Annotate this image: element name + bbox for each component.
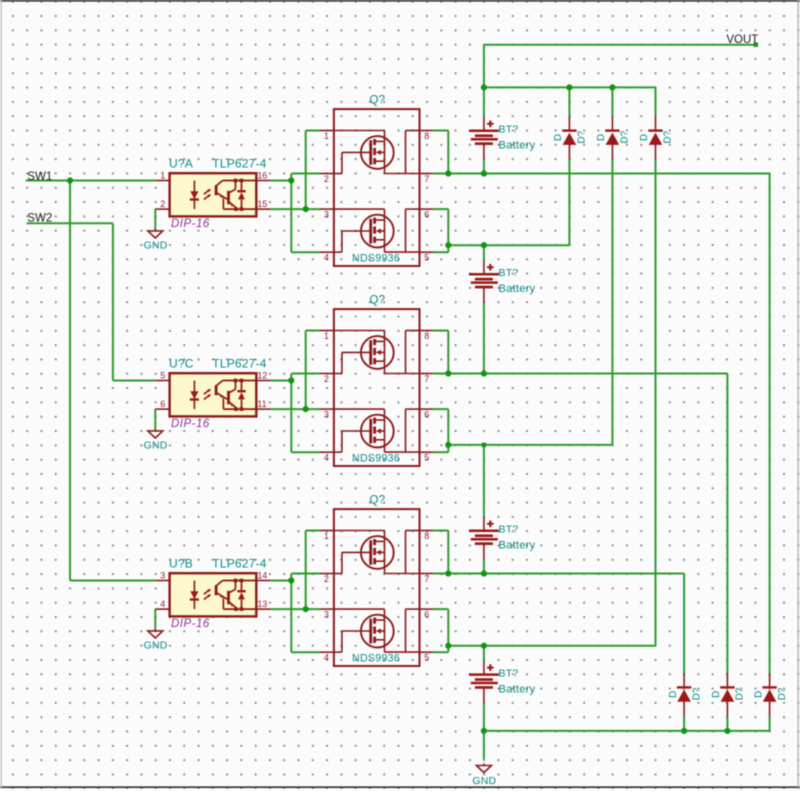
wire to Q gate pin4	[291, 651, 320, 653]
svg-text:SW1: SW1	[27, 171, 52, 183]
wire jog vertical	[290, 174, 292, 253]
svg-text:D?: D?	[777, 687, 788, 700]
diode D? (B3)	[762, 673, 776, 716]
battery BT? (BT4)	[469, 660, 499, 703]
svg-text:DIP-16: DIP-16	[171, 618, 210, 630]
wire to Q gate pin2	[291, 373, 320, 375]
wire U?C emitter out	[271, 408, 320, 410]
wire Q pin8	[433, 130, 448, 132]
svg-text:13: 13	[257, 599, 267, 609]
wire SW2 vertical	[112, 223, 114, 380]
wire to bottom GND	[483, 731, 485, 760]
wire pin6-pin5 tie	[447, 209, 449, 252]
svg-text:NDS9936: NDS9936	[352, 652, 400, 664]
wire top rail R1	[484, 86, 656, 88]
svg-text:Q?: Q?	[370, 95, 386, 107]
wire pin8-pin7 tie	[447, 131, 449, 174]
svg-text:11: 11	[257, 399, 266, 409]
wire Q pin6	[433, 208, 448, 210]
optocoupler U?B TLP627-4	[155, 570, 270, 616]
wire Q pin5 jog	[433, 651, 448, 653]
svg-text:Battery: Battery	[499, 540, 536, 552]
junction	[481, 170, 487, 176]
wire to Q pin1	[306, 330, 320, 332]
junction	[288, 577, 294, 583]
wire diode A2 top	[611, 87, 613, 116]
wire rail R3	[448, 444, 612, 446]
svg-text:D?: D?	[691, 687, 702, 700]
wire diode A1 top	[568, 87, 570, 116]
wire jog vertical	[290, 574, 292, 653]
wire Q pin6	[433, 608, 448, 610]
wire diode A3 bottom	[655, 159, 657, 645]
wire diode A1 bottom	[568, 159, 570, 245]
svg-text:BT?: BT?	[499, 124, 519, 136]
svg-text:4: 4	[160, 599, 165, 609]
svg-text:Battery: Battery	[499, 140, 536, 152]
wire Q pin8	[433, 530, 448, 532]
wire U?A emitter out	[271, 208, 320, 210]
svg-text:NDS9936: NDS9936	[352, 252, 400, 264]
svg-text:D: D	[553, 134, 564, 141]
svg-text:D: D	[668, 691, 679, 698]
junction	[445, 170, 451, 176]
svg-text:BT?: BT?	[499, 668, 519, 680]
wire SW2 to U?C pin5	[113, 380, 155, 382]
wire end square BT3 top	[482, 443, 486, 447]
svg-text:D?: D?	[735, 687, 746, 700]
junction	[481, 242, 487, 248]
wire end square VOUT	[754, 43, 758, 47]
wire BT3 bottom	[483, 560, 485, 574]
wire diode B1 to rail	[683, 716, 685, 731]
junction	[609, 84, 615, 90]
svg-text:D: D	[639, 134, 650, 141]
battery BT? (BT1)	[469, 117, 499, 160]
wire jog vertical	[290, 374, 292, 453]
svg-text:6: 6	[160, 399, 165, 409]
ground	[148, 629, 163, 638]
battery BT? (BT3)	[469, 517, 499, 560]
junction	[724, 728, 730, 734]
svg-text:GND: GND	[144, 640, 168, 652]
wire BT2 bottom	[483, 303, 485, 374]
transistor Q? NDS9936 dual MOSFET	[320, 509, 433, 666]
junction	[445, 442, 451, 448]
wire bottom rail	[484, 730, 770, 732]
wire to Q pin1	[306, 130, 320, 132]
svg-text:U?C: U?C	[169, 357, 194, 371]
svg-text:U?A: U?A	[169, 157, 193, 171]
svg-text:Q?: Q?	[370, 495, 386, 507]
svg-text:TLP627-4: TLP627-4	[212, 357, 266, 371]
wire pin7 rail group2	[433, 373, 727, 375]
wire U?A pin2 to GND drop	[154, 209, 156, 229]
wire Q pin5 jog	[433, 451, 448, 453]
wire BT1 bottom	[483, 160, 485, 174]
wire diode B2 to rail	[726, 716, 728, 731]
svg-text:TLP627-4: TLP627-4	[212, 157, 266, 171]
svg-text:D?: D?	[620, 130, 631, 143]
wire diode B2 column	[726, 374, 728, 674]
svg-text:D?: D?	[577, 130, 588, 143]
junction	[481, 84, 487, 90]
node SW1	[26, 180, 156, 182]
junction	[445, 570, 451, 576]
wire diode B3 column	[769, 174, 771, 674]
wire diode B1 column	[683, 574, 685, 674]
wire to Q gate pin2	[291, 173, 320, 175]
optocoupler U?A TLP627-4	[155, 170, 270, 216]
svg-text:VOUT: VOUT	[726, 34, 758, 46]
junction	[67, 177, 73, 183]
node VOUT wire	[484, 44, 756, 46]
transistor Q? NDS9936 dual MOSFET	[320, 109, 433, 266]
junction	[481, 570, 487, 576]
diode D? (A2)	[605, 116, 619, 159]
junction	[566, 84, 572, 90]
ground	[148, 429, 163, 438]
diode D? (B1)	[677, 673, 691, 716]
wire U?C pin2 to GND drop	[154, 409, 156, 429]
svg-text:GND: GND	[472, 775, 496, 787]
wire U?B emitter out	[271, 608, 320, 610]
wire rail R2	[448, 244, 569, 246]
sheet border	[0, 0, 800, 2]
wire Q pin6	[433, 408, 448, 410]
transistor Q? NDS9936 dual MOSFET	[320, 309, 433, 466]
wire battery1 row / pin7 rail group1	[433, 173, 770, 175]
svg-text:D?: D?	[663, 130, 674, 143]
svg-text:DIP-16: DIP-16	[171, 418, 210, 430]
wire Q pin8	[433, 330, 448, 332]
svg-text:BT?: BT?	[499, 267, 519, 279]
svg-text:U?B: U?B	[169, 557, 193, 571]
svg-text:DIP-16: DIP-16	[171, 218, 210, 230]
wire pin8-pin7 tie	[447, 331, 449, 374]
wire U?C collector out	[271, 380, 292, 382]
diode D? (B2)	[720, 673, 734, 716]
wire to Q gate pin4	[291, 451, 320, 453]
wire rail R4	[448, 645, 655, 647]
svg-text:NDS9936: NDS9936	[352, 452, 400, 464]
svg-text:15: 15	[257, 199, 267, 209]
junction	[288, 377, 294, 383]
svg-text:16: 16	[257, 170, 267, 180]
wire SW1 vertical bus	[69, 181, 71, 581]
diode D? (A3)	[648, 116, 662, 159]
svg-text:SW2: SW2	[27, 213, 52, 225]
wire diode B3 to rail	[769, 716, 771, 731]
svg-text:1: 1	[160, 170, 165, 180]
wire U?A collector out	[271, 180, 292, 182]
wire pin6-pin5 tie	[447, 609, 449, 652]
svg-text:5: 5	[160, 370, 165, 380]
wire SW1 bus to U?B pin3	[70, 580, 155, 582]
svg-text:D: D	[711, 691, 722, 698]
wire Q pin5 jog	[433, 251, 448, 253]
junction	[445, 370, 451, 376]
svg-text:GND: GND	[144, 240, 168, 252]
diode D? (A1)	[562, 116, 576, 159]
wire U?B pin2 to GND drop	[154, 609, 156, 629]
svg-text:12: 12	[257, 370, 267, 380]
junction	[481, 370, 487, 376]
junction	[481, 643, 487, 649]
ground	[148, 229, 163, 238]
wire to Q pin1	[306, 530, 320, 532]
svg-text:Battery: Battery	[499, 683, 536, 695]
ground (battery stack)	[476, 763, 491, 772]
junction	[445, 242, 451, 248]
wire VOUT feeder vertical	[483, 45, 485, 117]
junction	[445, 643, 451, 649]
wire BT4 bottom	[483, 703, 485, 731]
wire U?B collector out	[271, 580, 292, 582]
wire jog vertical 2	[305, 531, 307, 610]
wire to Q gate pin4	[291, 251, 320, 253]
svg-text:D: D	[596, 134, 607, 141]
svg-text:14: 14	[257, 570, 267, 580]
optocoupler U?C TLP627-4	[155, 370, 270, 416]
junction	[303, 606, 309, 612]
svg-text:TLP627-4: TLP627-4	[212, 557, 266, 571]
svg-text:Battery: Battery	[499, 283, 536, 295]
junction	[681, 728, 687, 734]
wire pin6-pin5 tie	[447, 409, 449, 452]
svg-text:3: 3	[160, 570, 165, 580]
wire BT4 top	[483, 646, 485, 661]
wire diode A3 top	[655, 87, 657, 116]
wire to Q gate pin2	[291, 573, 320, 575]
wire jog vertical 2	[305, 131, 307, 210]
svg-text:BT?: BT?	[499, 524, 519, 536]
wire pin7 rail group3	[433, 573, 684, 575]
wire BT3 top	[483, 445, 485, 517]
wire diode A2 bottom	[611, 159, 613, 445]
junction	[481, 728, 487, 734]
svg-text:Q?: Q?	[370, 295, 386, 307]
wire BT2 top	[483, 245, 485, 260]
svg-text:D: D	[753, 691, 764, 698]
junction	[303, 406, 309, 412]
battery BT? (BT2)	[469, 260, 499, 303]
wire jog vertical 2	[305, 331, 307, 410]
junction	[303, 206, 309, 212]
svg-text:2: 2	[160, 199, 165, 209]
svg-text:GND: GND	[144, 440, 168, 452]
wire pin8-pin7 tie	[447, 531, 449, 574]
junction	[288, 177, 294, 183]
node SW2	[27, 222, 113, 224]
